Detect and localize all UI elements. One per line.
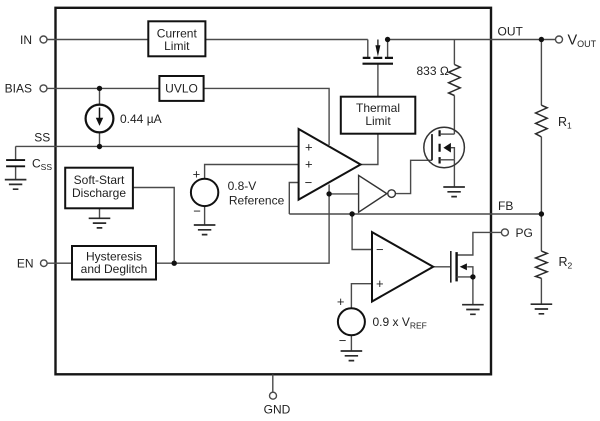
svg-text:−: − [339,333,347,348]
svg-text:−: − [305,175,313,190]
wire BIAS to UVLO [47,87,159,89]
vref + sign [337,294,345,309]
label 0.8-V Reference [228,179,285,208]
reference + sign [193,167,201,182]
svg-text:PG: PG [516,226,533,240]
wire buffer input [329,193,359,195]
wire PG FET drain to PG terminal [457,232,502,255]
wire 833 ohm resistor leads [453,40,455,135]
label R1 [558,115,572,131]
PG FET (open drain NMOS) [451,251,473,283]
svg-text:FB: FB [498,199,513,213]
resistor R1 [536,105,548,137]
svg-text:−: − [376,242,384,257]
label 833 ohm [417,64,449,78]
svg-text:833 Ω: 833 Ω [417,64,449,78]
junction FB/comparator [349,211,354,216]
wire current source leads [99,88,101,146]
junction pass FET drain [385,37,390,42]
wire pass FET drain to OUT and VOUT terminal [388,39,556,41]
wire IN to Current Limit [47,39,148,41]
pin SS label [34,130,50,144]
pin EN terminal [17,257,47,271]
resistor R2 [536,251,548,278]
terminal VOUT [556,32,597,49]
svg-text:+: + [376,276,384,291]
wire discharge FET source ground stem [453,160,455,187]
wire Soft-Start Discharge to EN net [133,188,174,264]
svg-text:0.44 µA: 0.44 µA [120,112,162,126]
ground soft-start [89,218,111,228]
voltage source 0.9 x VREF [338,308,365,335]
svg-text:Limit: Limit [365,114,391,128]
capacitor CSS [6,160,25,166]
svg-text:Thermal: Thermal [356,101,400,115]
wire output divider R1 R2 leads [540,40,542,305]
discharge FET (in circle) [424,127,465,168]
svg-text:and Deglitch: and Deglitch [81,262,148,276]
current source 0.44 uA [86,105,114,133]
vref - sign [339,333,347,348]
error amplifier [299,129,361,200]
wire soft-start ground stem [99,209,101,218]
svg-text:UVLO: UVLO [165,82,198,96]
pin GND terminal [264,392,291,417]
IC boundary box [56,8,492,375]
svg-text:OUT: OUT [498,24,524,38]
wire reference ground stem [204,206,206,225]
wire Hysteresis output to amp/buffer enable [156,185,329,264]
buffer stage [359,175,396,212]
wire UVLO output to error amp enable [204,88,330,145]
block Soft-Start Discharge [65,168,133,209]
reference - sign [193,203,201,218]
wire PG FET source ground stem [472,277,474,305]
svg-text:Soft-Start: Soft-Start [74,173,125,187]
junction buffer input [326,191,331,196]
wire PG comparator - input from FB [352,214,372,250]
wire 0.8V reference to error amp + input [205,165,299,179]
wire Current Limit to pass FET source [205,39,367,41]
svg-text:+: + [305,157,313,172]
svg-text:+: + [193,167,201,182]
block Thermal Limit [341,97,416,134]
wire error amp output to thermal/gate [361,64,378,165]
ground 0.9 VREF [341,351,363,361]
svg-text:Discharge: Discharge [72,186,126,200]
label 0.44 uA [120,112,162,126]
label R2 [559,255,573,271]
label 0.9 x VREF [373,315,427,331]
svg-text:GND: GND [264,403,291,417]
wire buffer output to discharge FET gate [396,160,432,193]
svg-text:BIAS: BIAS [5,82,32,96]
block UVLO [159,76,203,101]
wire error amp - input from FB [289,183,298,215]
svg-text:IN: IN [20,33,32,47]
pass transistor (top PMOS) [363,40,394,64]
svg-text:+: + [337,294,345,309]
svg-text:Limit: Limit [164,39,190,53]
wire PG comparator output to PG FET gate [433,266,451,268]
wire FB line [289,213,541,215]
ground reference [194,225,216,235]
PG comparator [372,232,433,301]
833 ohm resistor [449,65,461,96]
junction EN/soft-start [172,261,177,266]
ground R2 [531,304,553,314]
pin IN terminal [20,33,47,47]
pin PG terminal [501,226,532,240]
junction BIAS/current source [97,86,102,91]
block Hysteresis and Deglitch [72,246,156,280]
wire PG comparator + input from 0.9 VREF [351,284,372,309]
pin OUT label [498,24,524,38]
svg-text:Reference: Reference [229,194,285,208]
block Current Limit [148,21,205,56]
label CSS [32,156,52,172]
svg-text:EN: EN [17,257,34,271]
ground PG FET [462,305,484,315]
svg-text:0.8-V: 0.8-V [228,179,257,193]
ground CSS [5,180,27,190]
wire CSS capacitor leads [15,146,17,179]
junction FB/divider [539,211,544,216]
junction SS/current source [97,144,102,149]
ground discharge FET [443,187,465,197]
junction PG FET body/source [470,274,475,279]
wire GND pin stub [272,374,274,392]
wire SS line to error amp + input [16,145,299,147]
pin FB label [498,199,513,213]
wire 0.9 VREF ground stem [350,335,352,351]
svg-text:SS: SS [34,130,50,144]
svg-text:+: + [305,140,313,155]
pin BIAS terminal [5,82,47,96]
wire EN pin to Hysteresis block [47,262,72,264]
svg-text:−: − [193,203,201,218]
voltage source 0.8-V reference [191,179,218,206]
junction OUT/divider [539,37,544,42]
